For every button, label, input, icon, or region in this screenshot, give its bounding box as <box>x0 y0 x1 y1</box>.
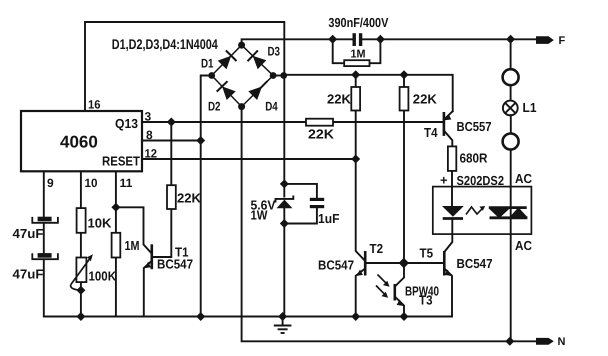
svg-text:BC557: BC557 <box>457 119 492 134</box>
svg-text:BC547: BC547 <box>457 256 493 271</box>
svg-text:D4: D4 <box>265 99 278 113</box>
svg-text:D1,D2,D3,D4:1N4004: D1,D2,D3,D4:1N4004 <box>112 36 218 52</box>
svg-text:1M: 1M <box>125 238 140 253</box>
svg-text:BC547: BC547 <box>318 258 354 273</box>
svg-text:T4: T4 <box>424 125 438 140</box>
svg-text:10: 10 <box>85 176 98 190</box>
svg-text:1W: 1W <box>251 208 269 223</box>
svg-text:8: 8 <box>146 128 153 142</box>
svg-text:AC: AC <box>515 238 533 253</box>
svg-text:16: 16 <box>88 98 101 112</box>
svg-text:10K: 10K <box>88 216 113 231</box>
svg-text:12: 12 <box>145 147 158 161</box>
svg-text:1M: 1M <box>351 49 366 61</box>
svg-text:T2: T2 <box>370 241 384 256</box>
svg-text:1uF: 1uF <box>318 211 340 226</box>
svg-text:T5: T5 <box>420 246 434 261</box>
svg-text:L1: L1 <box>523 100 537 115</box>
svg-text:N: N <box>558 336 566 348</box>
svg-text:47uF: 47uF <box>13 267 44 282</box>
svg-text:+: + <box>440 173 448 188</box>
svg-text:BC547: BC547 <box>157 257 193 272</box>
svg-text:RESET: RESET <box>102 154 140 169</box>
svg-text:AC: AC <box>515 171 533 186</box>
svg-text:Q13: Q13 <box>115 116 138 131</box>
svg-text:22K: 22K <box>308 127 335 142</box>
svg-text:22K: 22K <box>413 92 438 107</box>
svg-text:22K: 22K <box>177 191 202 206</box>
svg-text:D2: D2 <box>208 99 221 113</box>
svg-text:9: 9 <box>47 176 54 190</box>
svg-text:680R: 680R <box>460 151 489 166</box>
svg-text:390nF/400V: 390nF/400V <box>328 15 388 30</box>
svg-text:D3: D3 <box>268 44 281 58</box>
svg-text:T3: T3 <box>419 293 433 308</box>
svg-text:3: 3 <box>145 110 152 124</box>
svg-text:11: 11 <box>120 176 133 190</box>
svg-text:100K: 100K <box>89 269 117 284</box>
svg-text:F: F <box>559 35 566 47</box>
svg-text:4060: 4060 <box>60 132 98 151</box>
svg-text:47uF: 47uF <box>13 226 44 241</box>
svg-text:22K: 22K <box>327 92 352 107</box>
svg-text:D1: D1 <box>201 57 214 71</box>
svg-text:S202DS2: S202DS2 <box>457 173 505 188</box>
